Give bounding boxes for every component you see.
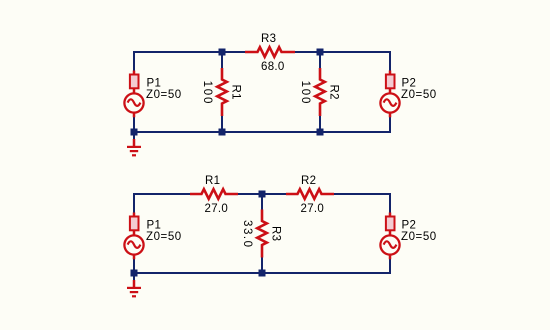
svg-text:P2: P2	[402, 77, 417, 89]
wire R1 bottom stub	[221, 115, 223, 133]
wire top segment right (R2 right pin to P2)	[333, 193, 391, 195]
svg-text:R1: R1	[230, 85, 242, 100]
resistor R1 (top circuit, vertical, 100 ohm)	[217, 68, 227, 116]
resistor R1 name label (bottom circuit)	[205, 175, 220, 187]
wire R1 top stub	[221, 51, 223, 69]
resistor R2 value label 27.0	[301, 203, 325, 215]
resistor R3 (bottom circuit, vertical, 33 ohm)	[257, 210, 267, 258]
svg-text:R3: R3	[261, 33, 276, 45]
wire top-left segment (node 1 to R3 left pin)	[133, 51, 246, 53]
port P2 value label Z0=50	[401, 89, 437, 101]
resistor R2 value label 100	[299, 81, 311, 104]
port P1 (bottom circuit)	[124, 213, 143, 260]
ground (bottom circuit)	[127, 274, 141, 297]
svg-text:R3: R3	[270, 226, 282, 241]
svg-text:27.0: 27.0	[301, 203, 325, 215]
resistor R2 name label	[328, 85, 340, 100]
resistor R2 name label (bottom circuit)	[301, 175, 316, 187]
resistor R1 value label 100	[201, 81, 213, 104]
svg-text:P2: P2	[402, 219, 417, 231]
svg-text:27.0: 27.0	[205, 203, 229, 215]
wire top segment middle (R1 right pin to R2 left pin)	[237, 193, 287, 195]
resistor R2 (bottom circuit, horizontal, 27 ohm)	[286, 189, 334, 199]
wire R2 bottom stub	[319, 115, 321, 133]
svg-text:P1: P1	[147, 219, 162, 231]
wire left vertical (P1 branch, bottom circuit)	[133, 193, 135, 274]
svg-text:Z0=50: Z0=50	[401, 89, 437, 101]
resistor R3 name label	[261, 33, 276, 45]
wire R3 top stub (bottom circuit)	[261, 193, 263, 210]
resistor R2 (top circuit, vertical, 100 ohm)	[315, 68, 325, 116]
svg-text:33.0: 33.0	[241, 220, 253, 247]
wire R2 top stub	[319, 51, 321, 69]
resistor R3 name label (bottom circuit)	[270, 226, 282, 241]
resistor R3 value label 33.0	[241, 220, 253, 247]
wire top segment left (P1 to R1 left pin)	[133, 193, 191, 195]
junction R2 bottom	[317, 129, 324, 136]
port P2 label (bottom circuit)	[402, 219, 417, 231]
svg-text:Z0=50: Z0=50	[401, 231, 437, 243]
junction ground tap (bottom circuit)	[131, 270, 138, 277]
port P1 label	[147, 77, 162, 89]
junction R1 bottom	[219, 129, 226, 136]
wire top-right segment (R3 right pin to node 2)	[294, 51, 391, 53]
junction R3 bottom (bottom circuit)	[259, 270, 266, 277]
svg-text:R2: R2	[301, 175, 316, 187]
junction node 3 (R3 top, bottom circuit)	[259, 191, 266, 198]
resistor R1 value label 27.0	[205, 203, 229, 215]
resistor R1 name label	[230, 85, 242, 100]
wire bottom (ground rail, bottom circuit)	[133, 272, 391, 274]
port P1 label (bottom circuit)	[147, 219, 162, 231]
junction node 1 (R1 top)	[219, 49, 226, 56]
svg-text:68.0: 68.0	[261, 61, 285, 73]
wire right vertical (P2 branch, bottom circuit)	[389, 193, 391, 274]
port P1 value label Z0=50	[146, 89, 182, 101]
svg-text:P1: P1	[147, 77, 162, 89]
resistor R3 value label 68.0	[261, 61, 285, 73]
wire R3 bottom stub (bottom circuit)	[261, 257, 263, 274]
svg-text:Z0=50: Z0=50	[146, 231, 182, 243]
port P2 (top circuit)	[380, 71, 399, 118]
port P2 (bottom circuit)	[380, 213, 399, 260]
svg-text:100: 100	[201, 81, 213, 104]
port P1 (top circuit)	[124, 71, 143, 118]
svg-text:R2: R2	[328, 85, 340, 100]
svg-text:Z0=50: Z0=50	[146, 89, 182, 101]
resistor R3 (top circuit, horizontal, 68 ohm)	[245, 47, 295, 57]
junction node 2 (R2 top)	[317, 49, 324, 56]
svg-text:R1: R1	[205, 175, 220, 187]
resistor R1 (bottom circuit, horizontal, 27 ohm)	[190, 189, 238, 199]
port P2 label	[402, 77, 417, 89]
port P2 value label Z0=50 (bottom circuit)	[401, 231, 437, 243]
wire bottom (ground rail, top circuit)	[133, 131, 391, 133]
wire right vertical (P2 branch)	[389, 51, 391, 133]
wire left vertical (P1 branch)	[133, 51, 135, 133]
ground (top circuit)	[127, 133, 141, 156]
svg-text:100: 100	[299, 81, 311, 104]
junction ground tap (P1 bottom)	[131, 129, 138, 136]
port P1 value label Z0=50 (bottom circuit)	[146, 231, 182, 243]
